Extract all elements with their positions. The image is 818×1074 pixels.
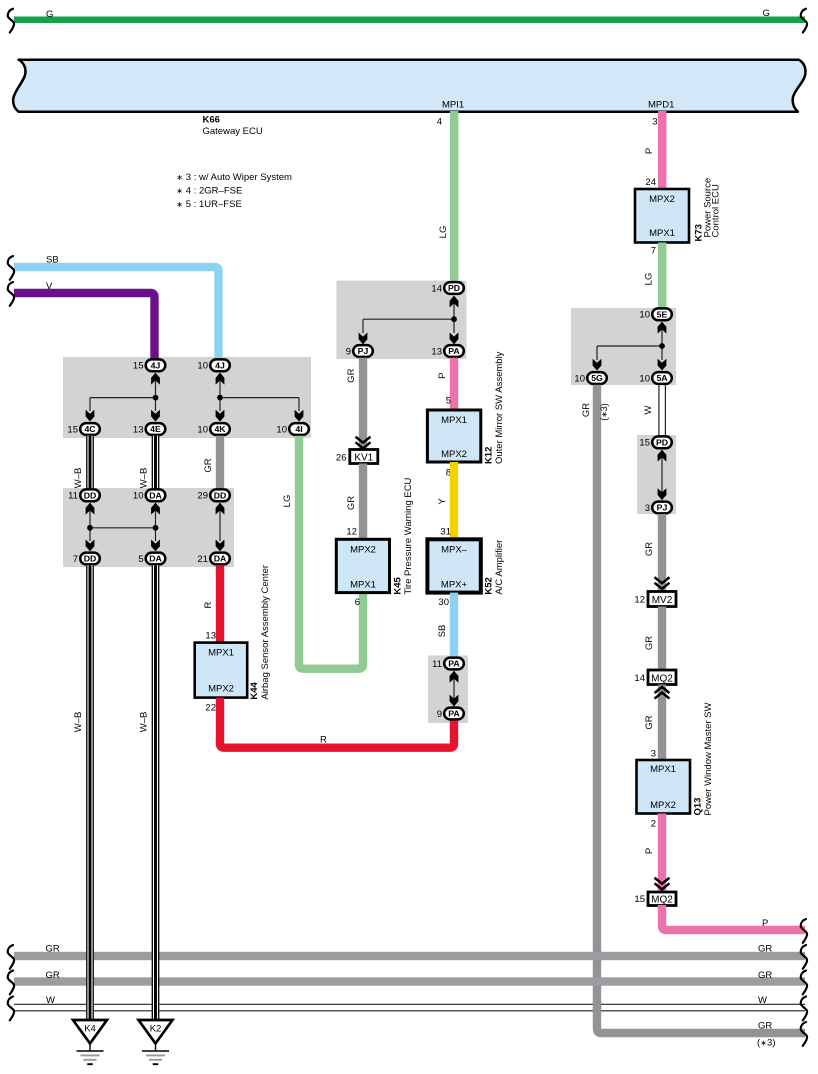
svg-text:15: 15 [67, 424, 78, 435]
junction block 5E/5G/5A [571, 308, 676, 385]
svg-text:Outer Mirror SW Assembly: Outer Mirror SW Assembly [494, 351, 505, 464]
svg-text:(∗3): (∗3) [599, 403, 609, 421]
svg-text:Q13: Q13 [693, 798, 704, 816]
svg-text:∗ 3 : w/ Auto Wiper System: ∗ 3 : w/ Auto Wiper System [176, 172, 292, 183]
junction dot under 4J15 [153, 395, 159, 401]
svg-text:GR: GR [758, 943, 772, 954]
wire W-B from DD7 to ground K4 [73, 565, 94, 1020]
arrow into PD14 [450, 296, 459, 308]
arrow into DA10 [151, 503, 160, 515]
svg-text:24: 24 [645, 177, 656, 188]
svg-text:MPX2: MPX2 [649, 194, 675, 205]
svg-text:5A: 5A [656, 373, 668, 383]
svg-text:DA: DA [214, 554, 227, 564]
ECU K44 Airbag Sensor Assembly Center [195, 565, 271, 700]
arrow into 4I [295, 410, 304, 422]
connector PA pin 9 [437, 708, 464, 720]
junction dot under 4J10 [217, 395, 223, 401]
arrow into 4J10 [216, 373, 225, 385]
arrow into PA9 [450, 695, 459, 707]
connector PA pin 13 [431, 345, 463, 357]
wire LG from 4I to K45 pin 6 [299, 436, 363, 669]
svg-text:MPX2: MPX2 [650, 800, 676, 811]
svg-text:W–B: W–B [139, 712, 150, 733]
svg-text:4E: 4E [150, 424, 161, 434]
junction MV2 pin 12 [634, 592, 676, 607]
connector 4J pin 15 [133, 359, 165, 371]
arrow into 4J15 [151, 373, 160, 385]
svg-text:30: 30 [438, 597, 449, 608]
svg-text:GR: GR [644, 715, 655, 729]
labels GR (*3) bus right [801, 1022, 807, 1046]
wire GR from MQ2 to Q13 pin 3 [658, 685, 666, 761]
svg-text:PA: PA [448, 346, 460, 356]
junction dot 5E branch [659, 343, 665, 349]
svg-text:5G: 5G [591, 373, 603, 383]
svg-text:R: R [320, 735, 327, 746]
svg-text:MQ2: MQ2 [651, 673, 673, 684]
junction block PA11/PA9 [428, 656, 468, 724]
svg-text:MPX1: MPX1 [650, 764, 676, 775]
svg-text:21: 21 [197, 554, 208, 565]
ground K4 [73, 1020, 107, 1064]
svg-text:MPX1: MPX1 [649, 228, 675, 239]
svg-text:GR: GR [581, 403, 592, 417]
svg-text:26: 26 [336, 452, 347, 463]
svg-text:10: 10 [197, 424, 208, 435]
svg-text:Gateway ECU: Gateway ECU [203, 126, 263, 137]
wire P from MQ2 to right edge [662, 905, 805, 930]
arrow into DD29 [216, 503, 225, 515]
junction block 4J/4C/4E/4K/4I [63, 357, 311, 438]
connector 5A pin 10 [639, 372, 671, 384]
svg-text:R: R [203, 601, 214, 608]
svg-text:12: 12 [634, 595, 645, 606]
svg-text:GR: GR [46, 970, 60, 981]
svg-text:∗ 5 : 1UR–FSE: ∗ 5 : 1UR–FSE [176, 199, 241, 210]
svg-text:K66: K66 [203, 115, 220, 126]
svg-text:14: 14 [634, 673, 645, 684]
svg-text:10: 10 [639, 373, 650, 384]
svg-text:GR: GR [758, 970, 772, 981]
junction block PD15/PJ3 [637, 435, 676, 514]
wire GR from KV1 to K45 pin 12 [359, 464, 367, 540]
wire SB from K52 pin 30 to PA11 [450, 593, 458, 658]
svg-text:MPX+: MPX+ [441, 579, 468, 590]
svg-text:29: 29 [197, 491, 208, 502]
svg-text:PJ: PJ [657, 503, 668, 513]
arrow into 4E [151, 410, 160, 422]
wire W bus (double line) [14, 1004, 805, 1011]
svg-text:K44: K44 [249, 681, 260, 699]
ECU K45 Tire Pressure Warning ECU [336, 477, 414, 594]
svg-text:MPX1: MPX1 [441, 415, 467, 426]
connector PJ pin 3 [645, 502, 672, 514]
svg-text:GR: GR [644, 542, 655, 556]
svg-text:W: W [46, 995, 55, 1006]
connector 4K pin 10 [197, 423, 229, 435]
svg-text:9: 9 [437, 709, 442, 720]
svg-text:PD: PD [656, 438, 668, 448]
break symbol left of G bus [8, 9, 14, 33]
svg-text:9: 9 [346, 346, 351, 357]
svg-text:W–B: W–B [139, 468, 150, 489]
svg-text:GR: GR [758, 1021, 772, 1032]
wire Y from K12 pin 8 to K52 pin 31 [450, 462, 458, 539]
svg-text:W–B: W–B [73, 468, 84, 489]
svg-text:4J: 4J [215, 361, 225, 371]
svg-text:31: 31 [440, 526, 451, 537]
chevron marker above MV2 [656, 578, 669, 589]
svg-text:PA: PA [448, 659, 460, 669]
wire GR from 4K to DD29 [216, 436, 224, 489]
svg-text:MV2: MV2 [652, 595, 673, 606]
wires inside block 4J/4C/4E/4K/4I [90, 373, 299, 411]
connector 5E pin 10 [639, 308, 671, 320]
arrow into DD11 [86, 503, 95, 515]
svg-text:22: 22 [205, 703, 216, 714]
wire GR from 5G down to GR bus (*3) [597, 385, 805, 1033]
wire GR bus 1 [14, 952, 805, 960]
svg-text:10: 10 [197, 361, 208, 372]
wires inside block PD14/PJ9/PA13 [363, 296, 454, 333]
svg-text:5E: 5E [657, 310, 668, 320]
amplifier K52 A/C Amplifier [427, 539, 505, 594]
arrow into PJ3 [658, 488, 667, 500]
svg-text:G: G [46, 9, 53, 20]
junction dot DA column [153, 525, 159, 531]
connector DA pin 10 [133, 489, 165, 501]
connector 4I pin 10 [276, 423, 308, 435]
connector 4J pin 10 [197, 359, 229, 371]
wire GR from 5G crossing over W bus [593, 1001, 601, 1014]
wire GR from PJ3 to MV2 [658, 514, 666, 592]
svg-text:MQ2: MQ2 [651, 895, 673, 906]
svg-text:PD: PD [448, 283, 460, 293]
svg-text:MPX–: MPX– [441, 544, 468, 555]
junction MQ2 pin 14 [634, 670, 676, 685]
svg-text:PJ: PJ [358, 346, 369, 356]
ECU K66 Gateway ECU (box) [13, 60, 805, 112]
wire G bus (green, top) [14, 17, 805, 24]
svg-text:PA: PA [448, 709, 460, 719]
svg-text:11: 11 [68, 491, 78, 502]
svg-text:GR: GR [346, 368, 357, 382]
svg-text:Airbag Sensor Assembly Center: Airbag Sensor Assembly Center [260, 565, 271, 700]
junction block DD/DA [63, 488, 234, 567]
svg-text:4: 4 [437, 117, 442, 128]
connector PD pin 14 [431, 282, 463, 294]
svg-text:P: P [644, 148, 655, 154]
svg-text:15: 15 [133, 361, 144, 372]
svg-text:5: 5 [138, 554, 143, 565]
svg-text:DD: DD [84, 491, 97, 501]
svg-text:K12: K12 [484, 447, 495, 464]
junction dot DD column [87, 525, 93, 531]
junction MQ2 pin 15 [634, 892, 676, 906]
svg-text:K45: K45 [393, 576, 404, 594]
arrow into DA21 [216, 540, 225, 552]
svg-text:Power SourceControl ECU: Power SourceControl ECU [703, 178, 722, 238]
svg-text:12: 12 [346, 527, 357, 538]
svg-text:Tire Pressure Warning ECU: Tire Pressure Warning ECU [403, 477, 414, 594]
wire P from Q13 pin 2 to MQ2 pin 15 [658, 814, 666, 893]
svg-text:KV1: KV1 [354, 453, 373, 464]
svg-text:K4: K4 [84, 1023, 96, 1034]
arrow into 4K [216, 410, 225, 422]
svg-text:GR: GR [203, 458, 214, 472]
wire W-B from 4C to DD11 [73, 436, 94, 489]
svg-text:4K: 4K [214, 424, 226, 434]
svg-text:3: 3 [652, 117, 657, 128]
arrow into PA11 [450, 671, 459, 683]
junction KV1 pin 26 [336, 450, 378, 464]
arrow into 5A [658, 359, 667, 371]
connector DD pin 7 [73, 553, 100, 565]
svg-text:4C: 4C [84, 424, 96, 434]
svg-text:K52: K52 [484, 577, 495, 594]
svg-text:DD: DD [84, 554, 97, 564]
arrow into 4C [86, 410, 95, 422]
svg-text:7: 7 [73, 554, 78, 565]
connector DA pin 21 [197, 553, 229, 565]
svg-text:P: P [437, 373, 448, 379]
svg-text:13: 13 [205, 631, 216, 642]
junction block PD14/PJ9/PA13 [337, 281, 467, 359]
wire GR from PJ9 to KV1 [359, 358, 367, 450]
arrow into DD7 [86, 540, 95, 552]
svg-text:14: 14 [431, 283, 442, 294]
chevron marker below MQ2 [656, 687, 669, 698]
svg-text:DA: DA [149, 491, 162, 501]
svg-text:10: 10 [639, 310, 650, 321]
wires inside block 5E/5G/5A [597, 322, 662, 360]
wire LG from K66 MPI1 pin 4 to connector PD14 [450, 111, 458, 285]
svg-text:7: 7 [651, 246, 656, 257]
svg-text:(∗3): (∗3) [757, 1038, 776, 1049]
arrow into 5G [593, 359, 602, 371]
svg-text:W–B: W–B [73, 712, 84, 733]
svg-text:W: W [758, 995, 767, 1006]
switch Q13 Power Window Master SW [637, 702, 715, 815]
svg-text:10: 10 [276, 424, 287, 435]
svg-text:3: 3 [651, 749, 656, 760]
svg-text:4J: 4J [151, 361, 161, 371]
svg-text:MPX1: MPX1 [350, 579, 376, 590]
svg-text:MPD1: MPD1 [648, 100, 674, 111]
connector PD pin 15 [639, 436, 671, 448]
svg-text:6: 6 [355, 597, 360, 608]
chevron marker above MQ2 (15) [656, 879, 669, 890]
svg-text:∗ 4 : 2GR–FSE: ∗ 4 : 2GR–FSE [176, 186, 242, 197]
connector 4E pin 13 [133, 423, 165, 435]
connector DD pin 11 [68, 489, 100, 501]
wire W-B from 4E to DA10 [139, 436, 160, 489]
wire P from K66 MPD1 pin 3 to K73 pin 24 [658, 111, 666, 190]
connector 5G pin 10 [574, 372, 606, 384]
svg-text:MPX2: MPX2 [208, 684, 234, 695]
svg-text:V: V [46, 281, 53, 292]
svg-text:15: 15 [634, 894, 645, 905]
connector DD pin 29 [197, 489, 229, 501]
svg-text:W: W [643, 405, 654, 414]
ground K2 [139, 1020, 173, 1064]
svg-text:SB: SB [437, 625, 448, 638]
svg-text:Y: Y [437, 498, 448, 505]
svg-text:P: P [644, 848, 655, 854]
svg-text:10: 10 [133, 491, 144, 502]
wire R from DA21 to K44 pin 13 [216, 565, 224, 642]
svg-text:3: 3 [645, 503, 650, 514]
svg-text:13: 13 [431, 346, 442, 357]
svg-text:LG: LG [644, 273, 655, 286]
svg-text:GR: GR [46, 944, 60, 955]
ECU K73 Power Source Control ECU [635, 178, 722, 243]
wire W-B from DA5 to ground K2 [139, 565, 160, 1020]
wire GR bus 2 [14, 977, 805, 985]
svg-text:DA: DA [149, 554, 162, 564]
svg-text:2: 2 [651, 819, 656, 830]
svg-text:4I: 4I [295, 424, 302, 434]
arrow into PJ9 [359, 333, 368, 345]
chevron marker above KV1 [357, 438, 370, 449]
svg-text:11: 11 [432, 659, 442, 670]
wire LG from K73 pin 7 to connector 5E [658, 243, 666, 310]
svg-text:P: P [762, 918, 768, 929]
connector PJ pin 9 [346, 345, 373, 357]
svg-text:A/C Amplifier: A/C Amplifier [494, 540, 505, 595]
break symbol right of P wire [801, 919, 807, 943]
svg-text:MPX2: MPX2 [441, 449, 467, 460]
switch K12 Outer Mirror SW Assembly [427, 351, 505, 464]
svg-text:LG: LG [282, 495, 293, 508]
svg-text:K2: K2 [150, 1023, 162, 1034]
connector 4C pin 15 [67, 423, 99, 435]
svg-text:G: G [763, 8, 770, 19]
wire P from PA13 to K12 pin 5 [450, 358, 458, 410]
svg-text:5: 5 [446, 396, 451, 407]
wire V from left to 4J(15) [14, 293, 155, 359]
wires inside block DD/DA [90, 503, 220, 541]
connector PA pin 11 [432, 658, 464, 670]
wire R from K44 pin 22 to PA9 [220, 698, 454, 748]
svg-text:LG: LG [438, 226, 449, 239]
junction dot PD14 branch [451, 316, 457, 322]
wires inside block PD15/PJ3 [661, 450, 663, 500]
arrow into PD15 [658, 450, 667, 462]
svg-text:SB: SB [46, 254, 59, 265]
svg-text:15: 15 [639, 438, 650, 449]
wire GR from MV2 to MQ2 [658, 607, 666, 671]
wire SB from left to 4J(10) [14, 267, 219, 359]
svg-text:DD: DD [214, 491, 227, 501]
connector DA pin 5 [138, 553, 165, 565]
wire W from 5A to PD15 (double line) [659, 385, 666, 436]
svg-text:MPX1: MPX1 [208, 648, 234, 659]
svg-text:10: 10 [574, 373, 585, 384]
svg-text:Power Window Master SW: Power Window Master SW [703, 702, 714, 815]
svg-text:GR: GR [644, 636, 655, 650]
svg-text:MPX2: MPX2 [350, 544, 376, 555]
break symbol right of G bus [801, 9, 807, 33]
wires inside block PA11/PA9 [453, 671, 455, 707]
svg-text:MPI1: MPI1 [442, 100, 464, 111]
arrow into DA5 [151, 540, 160, 552]
svg-text:13: 13 [133, 424, 144, 435]
arrow into PA13 [450, 333, 459, 345]
svg-text:GR: GR [346, 496, 357, 510]
arrow into 5E [658, 322, 667, 334]
